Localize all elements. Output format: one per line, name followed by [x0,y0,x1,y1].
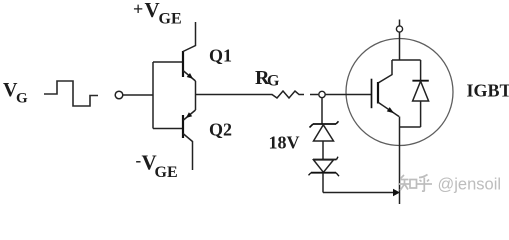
label Rg [255,67,280,90]
wire bottom rail to emitter [323,192,394,194]
wire between zeners [322,141,324,160]
svg-text:V: V [145,0,160,22]
wire zener to bottom rail [322,173,324,193]
svg-text:GE: GE [159,11,182,28]
transistor Q2 [183,110,196,170]
transistor Q1 [183,22,196,110]
svg-text:Q1: Q1 [209,46,232,66]
svg-text:GE: GE [155,164,178,181]
svg-text:IGBT: IGBT [467,81,509,101]
input terminal [115,91,123,99]
label +Vge [133,0,182,28]
wire collector top horizontal [392,59,421,61]
wire Q2 base [153,128,183,130]
IGBT U1 collector lead [378,60,392,83]
wire node down to zener [321,98,323,124]
wire resistor to node (with small gap) [299,94,305,96]
node junction circle [319,91,325,97]
watermark zhihu glyphs [399,175,432,192]
IGBT circle outline [346,39,453,146]
pulse waveform source symbol [44,81,98,106]
wire output to resistor [196,94,273,96]
svg-text:18V: 18V [269,133,300,153]
IGBT U1 gate bar [371,79,373,109]
svg-text:+: + [133,0,143,19]
wire input to base bus [123,94,153,96]
zener diode D1 (18V) [310,121,339,141]
svg-text:G: G [16,91,28,107]
wire Q1 base [153,61,183,63]
junction arrow at emitter rail [393,189,400,196]
IGBT top terminal [396,20,402,61]
wire node to gate [326,94,372,96]
svg-text:G: G [267,73,280,90]
node Vg label [3,79,28,107]
IGBT U1 body bar [377,82,379,104]
zener diode D2 [309,157,340,177]
wire emitter vertical [399,117,401,205]
IGBT U1 emitter lead with arrow [378,103,399,117]
resistor Rg zigzag [272,91,299,98]
wire base bus vertical [152,62,154,129]
freewheeling diode D3 [412,60,428,127]
svg-text:Q2: Q2 [209,120,232,140]
svg-text:@jensoil: @jensoil [438,176,502,194]
wire emitter to diode bottom [400,126,421,128]
label -Vge [136,151,178,182]
